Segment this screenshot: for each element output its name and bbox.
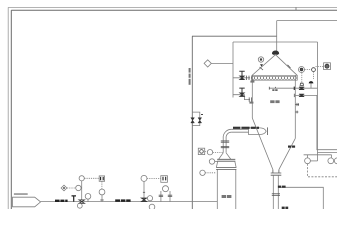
lance label: [272, 89, 277, 91]
offpage connector flag: [13, 197, 41, 207]
spray dryer roof left slope: [252, 55, 276, 76]
line right of boxB bottom: [318, 151, 337, 153]
instrument circle K1: [79, 176, 84, 181]
right wall tick y105: [295, 103, 299, 106]
instrument circle L2: [147, 196, 152, 201]
chamber label SP-01: [270, 100, 279, 103]
short line to box edge: [310, 160, 317, 162]
instrument square S3: [198, 148, 204, 154]
circle under pipe at injection: [77, 203, 82, 208]
outlet pipe left wall: [272, 175, 274, 209]
fan circle F3 edge: [334, 158, 337, 164]
signal node down: [313, 72, 315, 80]
border inner top line: [11, 9, 337, 11]
box B left edge / header: [232, 42, 234, 98]
heater label AC-01: [222, 195, 232, 198]
feed pipe label 2: [115, 199, 130, 201]
signal S1 down to T2: [101, 181, 103, 189]
instrument circle R1: [299, 67, 305, 73]
right wall tick y112: [295, 111, 298, 114]
hot air pipe vertical wall left: [222, 138, 224, 153]
hot air pipe label: [233, 127, 259, 129]
exhaust duct horizontal off-page: [277, 20, 337, 22]
wall stub flange y100: [249, 97, 251, 101]
fan circle F1: [305, 158, 311, 164]
valve V1 on branch 1: [240, 76, 245, 80]
instrument square S4: [324, 63, 331, 70]
elbow flange 1: [221, 141, 229, 142]
loop instrument tick 2: [198, 118, 202, 123]
cone right slope: [279, 138, 295, 169]
bottom right header line: [304, 154, 332, 156]
heater top flange: [217, 159, 235, 161]
border inner left line: [10, 10, 12, 209]
bypass loop on line A: [192, 112, 200, 126]
vent cap dark: [309, 82, 313, 83]
small node symbol: [312, 68, 316, 72]
fan circle F2: [328, 158, 334, 164]
signal I1 to pipe: [213, 152, 224, 154]
seal pot flange ticks: [159, 195, 173, 196]
control valve on pipe1: [299, 87, 304, 90]
bottom small label: [282, 207, 288, 209]
main feed pipe bottom: [41, 201, 218, 203]
spray dryer cap: [272, 51, 278, 54]
rotated pipe label SD line: [189, 68, 191, 85]
wire L1 down: [143, 181, 145, 201]
diamond node: [204, 60, 211, 67]
instrument square S1: [99, 176, 104, 181]
cone drain label: [288, 146, 295, 148]
wire K1 down to valve: [81, 181, 83, 200]
signal diamond to circle: [67, 187, 76, 189]
chamber left wall: [251, 75, 253, 118]
seal pot circle: [163, 186, 169, 192]
heater body flange: [216, 167, 236, 169]
elbow flange 2: [221, 146, 229, 147]
drop to fan F2: [331, 155, 333, 158]
instrument circle I3: [200, 170, 205, 175]
lance line in chamber: [269, 87, 295, 89]
flag title text: [14, 193, 28, 195]
hot air elbow inner arc: [226, 132, 231, 138]
instrument circle T2: [99, 189, 105, 195]
outlet pipe right wall: [277, 175, 279, 209]
pipe2 wall flange: [293, 94, 295, 97]
hot air pipe top line: [231, 128, 248, 130]
cone outlet flange: [271, 170, 282, 176]
T2 pipe tick: [100, 199, 103, 201]
signal R1 right: [305, 69, 312, 71]
wire diamond to header: [211, 62, 233, 64]
hot air elbow outer arc: [223, 129, 231, 138]
control valve on pipe: [141, 198, 146, 202]
outlet branch label: [278, 186, 286, 188]
signal K1 to square S1: [84, 177, 99, 179]
spray dryer roof right slope: [276, 55, 298, 76]
heater reducer sides: [219, 153, 231, 159]
square S1 inner dark: [101, 177, 104, 180]
square S2b inner dark: [163, 177, 166, 181]
valve on feed pipe: [79, 200, 85, 203]
instrument circle J1: [76, 185, 81, 190]
valve V2 on branch 2: [240, 93, 245, 97]
heater vessel right wall: [235, 169, 237, 209]
border outer top line: [8, 6, 337, 8]
roof nozzle tick left: [260, 67, 264, 70]
feed branch 2 wire: [233, 95, 250, 100]
signal to square S4: [316, 66, 324, 68]
square S4 inner dark: [325, 64, 329, 68]
distributor hatch band: [251, 75, 297, 80]
heater shoulder sides: [216, 161, 236, 167]
valve V1 stem: [239, 71, 244, 76]
valve V2 stem: [239, 88, 244, 93]
instrument circle K3: [85, 194, 91, 200]
loop instrument tick 1: [191, 118, 195, 123]
hot air pipe vertical wall right: [225, 138, 227, 153]
vent stem on pipe1: [310, 83, 312, 88]
signal S3 to I1: [205, 151, 208, 153]
nozzle flange tick: [267, 127, 269, 135]
outlet pipe flange tick: [272, 194, 280, 196]
hot air nozzle bullet: [249, 128, 267, 135]
border column tick: [295, 7, 297, 10]
signal L1 to square S2b: [147, 177, 161, 179]
square S3 inner: [200, 150, 204, 154]
exhaust duct vertical: [276, 21, 278, 51]
border outer left line: [7, 7, 9, 209]
wall flange bar left: [251, 76, 253, 82]
right pipe 2 from chamber: [295, 95, 337, 149]
right pipe 1 from chamber: [295, 87, 317, 89]
instrument circle L1: [141, 175, 147, 181]
injection tee bold: [72, 196, 77, 202]
valve actuator hat: [300, 83, 303, 85]
R1 inner circle: [300, 68, 303, 71]
instrument circle below pipe: [149, 204, 155, 210]
cone left slope: [252, 118, 273, 170]
signal I3 to vessel: [205, 172, 216, 174]
valve on pipe2: [299, 94, 304, 97]
wire T2 to pipe: [101, 195, 103, 202]
pipe1 wall flange dark: [293, 87, 295, 90]
wire I2 to reducer: [215, 161, 218, 163]
drop to fan F1: [307, 155, 309, 158]
signal R1 to valve: [301, 73, 303, 83]
signal dashed from F1: [308, 164, 337, 177]
hot air pipe bottom line: [231, 131, 248, 133]
instrument circle above roof: [258, 57, 263, 62]
instrument circle I1: [207, 150, 212, 155]
lance end ticks: [269, 87, 275, 90]
sample diamond: [61, 185, 67, 191]
chamber right wall: [294, 75, 296, 138]
heater vessel left wall: [216, 169, 218, 209]
wall stub flange y84: [247, 76, 249, 80]
box B right edge: [317, 42, 319, 161]
feed pipe label 1: [55, 200, 68, 202]
feed branch 1 wire: [233, 77, 250, 79]
boundary line A left edge: [191, 36, 193, 209]
box B top edge: [233, 41, 318, 43]
roof nozzle tick right: [288, 65, 291, 68]
instrument square S2b: [161, 176, 168, 183]
seal pot legs: [161, 191, 170, 202]
outlet branch wire right: [278, 187, 323, 209]
instrument circle I2: [209, 159, 214, 164]
boundary line A top: [192, 35, 277, 37]
